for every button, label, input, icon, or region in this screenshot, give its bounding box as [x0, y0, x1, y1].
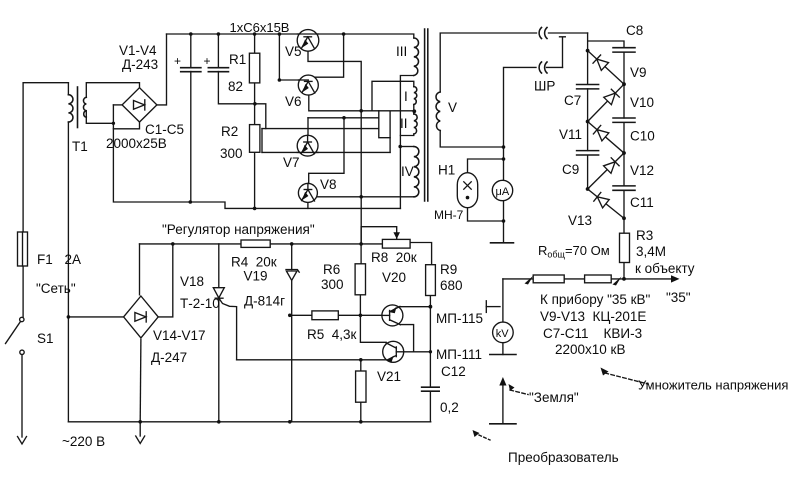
svg-text:μA: μA: [496, 186, 510, 198]
svg-text:R4 20к: R4 20к: [231, 255, 277, 270]
svg-text:R1: R1: [229, 52, 246, 67]
svg-text:С9: С9: [562, 162, 579, 177]
svg-text:С1-С5: С1-С5: [145, 122, 184, 137]
svg-text:С7-С11 КВИ-3: С7-С11 КВИ-3: [543, 326, 642, 341]
svg-text:С12: С12: [441, 364, 466, 379]
svg-text:~220 В: ~220 В: [62, 434, 105, 449]
svg-text:V8: V8: [320, 177, 337, 192]
svg-text:V: V: [448, 100, 457, 115]
svg-text:V7: V7: [283, 155, 300, 170]
svg-text:V20: V20: [382, 270, 406, 285]
svg-text:1хС6х15В: 1хС6х15В: [230, 20, 290, 35]
svg-text:С8: С8: [626, 23, 643, 38]
svg-text:Д-247: Д-247: [151, 350, 187, 365]
svg-text:V9-V13 КЦ-201Е: V9-V13 КЦ-201Е: [540, 309, 646, 324]
svg-text:kV: kV: [496, 328, 510, 340]
svg-text:V12: V12: [630, 163, 654, 178]
svg-text:+: +: [204, 54, 211, 68]
svg-text:"35": "35": [666, 290, 691, 305]
svg-text:МП-111: МП-111: [436, 347, 482, 362]
svg-text:к объекту: к объекту: [635, 261, 695, 276]
svg-text:"Регулятор напряжения": "Регулятор напряжения": [162, 222, 315, 237]
svg-text:Д-243: Д-243: [122, 57, 158, 72]
svg-text:V6: V6: [285, 94, 302, 109]
svg-text:V18: V18: [180, 274, 204, 289]
svg-text:V19: V19: [244, 269, 268, 284]
svg-text:V5: V5: [285, 44, 302, 59]
svg-text:300: 300: [220, 146, 243, 161]
svg-text:+: +: [174, 54, 181, 68]
svg-text:V21: V21: [377, 369, 401, 384]
svg-text:К прибору "35 кВ": К прибору "35 кВ": [540, 292, 651, 307]
svg-text:МН-7: МН-7: [434, 208, 464, 222]
svg-text:R6: R6: [323, 262, 340, 277]
svg-text:Преобразователь: Преобразователь: [508, 450, 619, 465]
svg-text:680: 680: [440, 278, 463, 293]
svg-text:R2: R2: [221, 124, 238, 139]
svg-text:0,2: 0,2: [440, 400, 459, 415]
svg-text:R8 20к: R8 20к: [371, 250, 417, 265]
svg-text:V13: V13: [568, 213, 592, 228]
svg-text:300: 300: [321, 277, 344, 292]
svg-text:82: 82: [228, 79, 243, 94]
svg-text:S1: S1: [37, 331, 54, 346]
svg-text:"Земля": "Земля": [529, 390, 579, 405]
svg-text:Д-814г: Д-814г: [244, 294, 285, 309]
svg-text:2200х10 кВ: 2200х10 кВ: [555, 342, 625, 357]
svg-text:ШР: ШР: [534, 79, 555, 94]
svg-text:V14-V17: V14-V17: [153, 328, 206, 343]
svg-text:R3: R3: [636, 228, 653, 243]
svg-text:Т1: Т1: [72, 139, 88, 154]
svg-text:Н1: Н1: [438, 163, 455, 178]
svg-text:I: I: [404, 89, 408, 104]
svg-text:II: II: [400, 116, 408, 131]
svg-text:V9: V9: [630, 65, 647, 80]
svg-text:С11: С11: [630, 195, 654, 210]
svg-text:Т-2-10: Т-2-10: [180, 296, 220, 311]
svg-text:С7: С7: [564, 93, 581, 108]
svg-text:F1: F1: [37, 252, 53, 267]
svg-text:3,4М: 3,4М: [636, 244, 666, 259]
svg-text:V1-V4: V1-V4: [119, 43, 157, 58]
svg-text:III: III: [396, 44, 407, 59]
svg-text:V10: V10: [630, 95, 654, 110]
svg-text:2A: 2A: [65, 252, 82, 267]
svg-text:МП-115: МП-115: [436, 311, 483, 326]
svg-text:С10: С10: [630, 128, 655, 143]
svg-text:V11: V11: [559, 127, 582, 142]
svg-text:IV: IV: [401, 164, 414, 179]
svg-text:Умножитель напряжения: Умножитель напряжения: [638, 378, 788, 393]
svg-text:R5 4,3к: R5 4,3к: [307, 327, 357, 342]
svg-text:R9: R9: [440, 262, 457, 277]
svg-text:"Сеть": "Сеть": [36, 281, 76, 296]
svg-text:2000х25В: 2000х25В: [106, 136, 167, 151]
